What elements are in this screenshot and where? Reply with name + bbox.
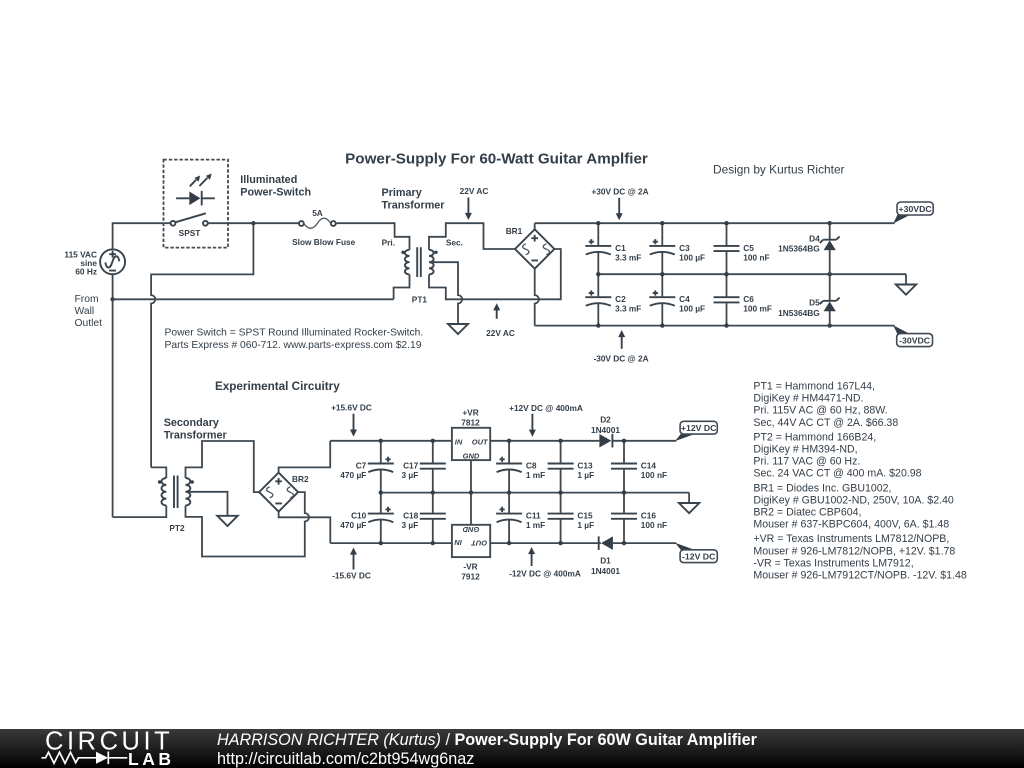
svg-text:60 Hz: 60 Hz: [75, 266, 97, 276]
node junction: [660, 272, 664, 276]
ground PT2 center tap: [217, 516, 237, 526]
svg-text:22V AC: 22V AC: [486, 328, 515, 338]
node junction: [828, 272, 832, 276]
svg-text:+12V DC: +12V DC: [681, 423, 717, 433]
label Secondary Transformer: [164, 417, 228, 442]
arrow -12V up: [528, 547, 535, 566]
node junction: [622, 439, 626, 443]
diode D1 1N4001: [599, 536, 677, 550]
svg-text:Sec.: Sec.: [446, 238, 463, 248]
svg-text:Power-Switch: Power-Switch: [240, 187, 311, 199]
svg-text:D1: D1: [600, 556, 611, 566]
node junction: [379, 490, 383, 494]
wire PT2 primary top: [151, 467, 166, 478]
bridge rectifier BR1: [515, 229, 554, 268]
svg-text:1N5364BG: 1N5364BG: [778, 308, 820, 318]
svg-text:PT1 = Hammond 167L44,: PT1 = Hammond 167L44,: [753, 381, 875, 393]
node junction after switch: [251, 221, 255, 225]
capacitor C17 3 &#181;F: [420, 441, 446, 493]
wire wall outlet horizontal: [113, 298, 394, 300]
svg-text:+VR: +VR: [462, 408, 478, 418]
svg-text:Experimental Circuitry: Experimental Circuitry: [215, 380, 340, 393]
svg-text:-15.6V DC: -15.6V DC: [332, 571, 371, 581]
arrow 22V AC down: [465, 198, 472, 221]
svg-text:Pri.: Pri.: [382, 238, 395, 248]
svg-text:7812: 7812: [461, 418, 480, 428]
svg-text:100 µF: 100 µF: [679, 304, 705, 314]
arrow +15.6V down: [350, 414, 357, 437]
svg-text:D5: D5: [809, 298, 820, 308]
label From Wall Outlet: [75, 294, 103, 329]
capacitor C13 1 &#181;F: [548, 441, 574, 493]
transformer PT2: [158, 476, 194, 509]
wire PT2 center tap to ground: [186, 492, 228, 516]
wire PT2 secondary bottom to BR2 right: [186, 492, 310, 556]
capacitor C3 100 &#181;F: [649, 223, 675, 274]
svg-text:+12V DC @ 400mA: +12V DC @ 400mA: [509, 403, 583, 413]
node junction: [558, 541, 562, 545]
flag +12V DC: [675, 421, 717, 441]
capacitor C14 100 nF: [611, 441, 637, 493]
svg-text:BR1 = Diodes Inc. GBU1002,: BR1 = Diodes Inc. GBU1002,: [753, 482, 891, 494]
wire +VR GND stem: [470, 460, 472, 493]
svg-text:+VR = Texas Instruments LM7812: +VR = Texas Instruments LM7812/NOPB,: [753, 533, 949, 545]
ground bottom circuit right: [679, 493, 699, 514]
wire PT1 secondary bottom to BR1 right: [429, 249, 561, 299]
capacitor C18 3 &#181;F: [420, 493, 446, 543]
svg-text:Primary: Primary: [382, 187, 422, 199]
wire PT1 center tap to ground: [429, 262, 462, 324]
capacitor C10 470 &#181;F: [368, 493, 394, 543]
LED cathode bar: [201, 191, 203, 206]
wire -30V rail: [535, 325, 895, 327]
svg-text:Mouser # 926-LM7912CT/NOPB. -1: Mouser # 926-LM7912CT/NOPB. -12V. $1.48: [753, 570, 966, 582]
svg-text:From: From: [75, 294, 99, 305]
svg-text:Parts Express # 060-712. www.p: Parts Express # 060-712. www.parts-expre…: [165, 340, 422, 351]
label Illuminated Power-Switch: [240, 174, 311, 199]
arrow -30V up: [618, 330, 625, 349]
svg-text:+15.6V DC: +15.6V DC: [331, 402, 372, 412]
wire fuse to PT1 primary: [336, 223, 410, 250]
LED lead wires: [176, 197, 215, 199]
wire mid rail: [598, 273, 906, 275]
svg-text:470 µF: 470 µF: [340, 520, 366, 530]
CircuitLab logo: [38, 729, 248, 768]
svg-text:Secondary: Secondary: [164, 417, 219, 429]
node junction: [660, 221, 664, 225]
svg-text:22V AC: 22V AC: [460, 186, 489, 196]
svg-text:Slow Blow Fuse: Slow Blow Fuse: [292, 237, 356, 247]
arrow +12V down: [529, 414, 536, 437]
node junction: [724, 272, 728, 276]
svg-text:Mouser # 637-KBPC604, 400V, 6A: Mouser # 637-KBPC604, 400V, 6A. $1.48: [753, 519, 949, 531]
note power switch: [165, 328, 424, 351]
node junction: [431, 439, 435, 443]
capacitor C11 1 mF: [496, 493, 522, 543]
svg-text:-12V DC @ 400mA: -12V DC @ 400mA: [509, 568, 581, 578]
arrow 22V AC up: [493, 303, 500, 319]
node junction: [558, 490, 562, 494]
capacitor C16 100 nF: [611, 493, 637, 543]
switch SPST: [171, 213, 208, 225]
wire PT2 secondary top to BR2: [186, 441, 260, 492]
svg-text:GND: GND: [462, 525, 479, 534]
svg-text:-VR: -VR: [463, 561, 477, 571]
LED arrow 1: [190, 176, 200, 187]
wire -VR GND stem: [470, 493, 472, 525]
logo diode: [96, 752, 108, 764]
footer bar: [0, 729, 1024, 768]
zener diode D5 1N5364BG: [820, 274, 840, 325]
capacitor C8 1 mF: [496, 441, 522, 493]
wire PT1 primary bottom to wall wire: [394, 275, 410, 300]
node junction: [828, 323, 832, 327]
svg-text:OUT: OUT: [472, 437, 489, 446]
svg-text:Pri. 117 VAC @ 60 Hz.: Pri. 117 VAC @ 60 Hz.: [753, 456, 860, 468]
wire BR1 plus to +30 rail: [534, 223, 536, 229]
wire source top to switch: [113, 223, 171, 249]
svg-text:DigiKey # HM394-ND,: DigiKey # HM394-ND,: [753, 444, 857, 456]
fuse F1 5A: [299, 218, 336, 228]
svg-text:100 mF: 100 mF: [743, 304, 772, 314]
logo resistor zigzag: [42, 752, 97, 763]
svg-text:1 µF: 1 µF: [577, 470, 594, 480]
svg-text:LAB: LAB: [128, 749, 174, 768]
svg-text:1 mF: 1 mF: [526, 520, 545, 530]
voltage regulator -VR 7912: [452, 525, 490, 557]
wire +15.6V rail to VR IN: [330, 440, 452, 442]
wire -15.6V rail to -VR IN: [330, 542, 452, 544]
svg-text:Power Switch = SPST Round Illu: Power Switch = SPST Round Illuminated Ro…: [165, 328, 424, 339]
node junction: [724, 221, 728, 225]
svg-text:Power-Supply For 60-Watt Guita: Power-Supply For 60-Watt Guitar Amplfier: [345, 150, 648, 167]
node junction: [622, 490, 626, 494]
svg-text:Pri. 115V AC @ 60 Hz, 88W.: Pri. 115V AC @ 60 Hz, 88W.: [753, 405, 887, 417]
ground mid rail right: [896, 274, 916, 295]
ground PT1 center tap: [448, 324, 468, 334]
svg-text:PT2 = Hammond 166B24,: PT2 = Hammond 166B24,: [753, 431, 876, 443]
footer text: [217, 731, 757, 768]
svg-text:3 µF: 3 µF: [402, 520, 419, 530]
svg-text:1 µF: 1 µF: [577, 520, 594, 530]
wire BR2 minus with hop to -15.6 rail: [279, 512, 331, 543]
svg-text:BR1: BR1: [506, 226, 523, 236]
node junction source bottom: [110, 297, 114, 301]
zener diode D4 1N5364BG: [820, 223, 840, 274]
svg-text:BR2: BR2: [292, 474, 309, 484]
svg-text:IN: IN: [454, 538, 462, 547]
node junction: [507, 439, 511, 443]
svg-text:D4: D4: [809, 233, 820, 243]
flag +30VDC: [893, 202, 933, 224]
svg-text:100 nF: 100 nF: [641, 520, 667, 530]
svg-text:Mouser # 926-LM7812/NOPB, +12V: Mouser # 926-LM7812/NOPB, +12V. $1.78: [753, 545, 955, 557]
svg-text:PT1: PT1: [412, 295, 428, 305]
node junction: [558, 439, 562, 443]
node junction: [596, 221, 600, 225]
svg-text:D2: D2: [600, 415, 611, 425]
arrow +30V down: [616, 198, 623, 221]
svg-text:Transformer: Transformer: [164, 429, 228, 441]
capacitor C15 1 &#181;F: [548, 493, 574, 543]
capacitor C2 3.3 mF: [585, 274, 611, 325]
capacitor C7 470 &#181;F: [368, 441, 394, 493]
svg-text:470 µF: 470 µF: [340, 470, 366, 480]
transformer PT1: [401, 247, 437, 277]
svg-text:Design by Kurtus Richter: Design by Kurtus Richter: [713, 163, 845, 177]
svg-text:Transformer: Transformer: [382, 200, 446, 212]
svg-text:+30VDC: +30VDC: [899, 204, 933, 214]
svg-text:-12V DC: -12V DC: [682, 552, 716, 562]
flag -12V DC: [675, 543, 717, 563]
svg-text:Illuminated: Illuminated: [240, 174, 297, 186]
svg-text:1N4001: 1N4001: [591, 425, 620, 435]
svg-text:3 µF: 3 µF: [402, 470, 419, 480]
svg-text:+30V DC @ 2A: +30V DC @ 2A: [591, 186, 648, 196]
node junction: [596, 272, 600, 276]
capacitor C5 100 nF: [714, 223, 740, 274]
wire BR1 minus down with hop: [535, 269, 539, 326]
node junction: [828, 221, 832, 225]
svg-text:1N5364BG: 1N5364BG: [778, 244, 820, 254]
wire -VR OUT to -12 rail: [490, 542, 601, 544]
svg-text:DigiKey # HM4471-ND.: DigiKey # HM4471-ND.: [753, 393, 863, 405]
svg-text:100 nF: 100 nF: [743, 252, 769, 262]
label 115 VAC sine 60 Hz: [64, 250, 97, 277]
svg-text:SPST: SPST: [179, 228, 201, 238]
svg-text:5A: 5A: [312, 208, 323, 218]
svg-text:BR2 = Diatec CBP604,: BR2 = Diatec CBP604,: [753, 507, 861, 519]
arrow -15.6V up: [350, 548, 357, 570]
svg-text:PT2: PT2: [169, 523, 185, 533]
voltage regulator +VR 7812: [452, 428, 490, 461]
svg-text:100 µF: 100 µF: [679, 252, 705, 262]
capacitor C6 100 mF: [714, 274, 740, 325]
LED arrow 2: [199, 174, 211, 187]
svg-text:OUT: OUT: [470, 538, 487, 547]
svg-text:-30V DC @ 2A: -30V DC @ 2A: [593, 353, 648, 363]
svg-text:DigiKey # GBU1002-ND, 250V, 10: DigiKey # GBU1002-ND, 250V, 10A. $2.40: [753, 494, 954, 506]
svg-text:1 mF: 1 mF: [526, 470, 545, 480]
wire +VR OUT to +12 rail: [490, 440, 599, 442]
svg-text:7912: 7912: [461, 571, 480, 581]
wire switch to fuse: [208, 222, 299, 224]
wire vertical to PT2 primary bottom: [112, 299, 114, 517]
svg-text:GND: GND: [463, 452, 480, 461]
node junction: [431, 541, 435, 545]
svg-text:Wall: Wall: [75, 306, 95, 317]
node junction: [379, 541, 383, 545]
node junction: [622, 541, 626, 545]
svg-text:Sec, 44V AC CT @ 2A. $66.38: Sec, 44V AC CT @ 2A. $66.38: [753, 417, 898, 429]
svg-text:1N4001: 1N4001: [591, 566, 620, 576]
parts list text block: [753, 381, 966, 582]
wire switch return vertical with hop: [151, 223, 253, 467]
node junction VR gnd: [469, 490, 473, 494]
diode D2 1N4001: [599, 434, 676, 448]
node junction: [507, 490, 511, 494]
voltage source V1 115VAC: [100, 249, 125, 274]
svg-text:Outlet: Outlet: [75, 318, 103, 329]
node junction: [724, 323, 728, 327]
node junction: [660, 323, 664, 327]
LED triangle: [189, 192, 200, 206]
capacitor C1 3.3 mF: [585, 223, 611, 274]
node junction: [596, 323, 600, 327]
node junction: [379, 439, 383, 443]
wire BR2 plus to +15.6 rail: [279, 441, 331, 473]
wire mid rail bottom: [381, 492, 689, 494]
node junction: [507, 541, 511, 545]
bridge rectifier BR2: [259, 473, 298, 512]
svg-text:Sec. 24 VAC CT @ 400 mA. $20.9: Sec. 24 VAC CT @ 400 mA. $20.98: [753, 468, 921, 480]
svg-text:3.3 mF: 3.3 mF: [615, 252, 641, 262]
svg-text:3.3 mF: 3.3 mF: [615, 304, 641, 314]
dashed enclosure illuminated power-switch: [164, 160, 229, 248]
node junction: [431, 490, 435, 494]
wire PT2 primary bottom: [113, 506, 167, 518]
flag -30VDC: [893, 325, 932, 346]
svg-text:IN: IN: [455, 437, 463, 446]
wire +30V rail: [535, 222, 895, 224]
capacitor C4 100 &#181;F: [649, 274, 675, 325]
svg-text:-VR = Texas Instruments LM7912: -VR = Texas Instruments LM7912,: [753, 557, 913, 569]
svg-text:100 nF: 100 nF: [641, 470, 667, 480]
wire source bottom: [112, 274, 114, 299]
label Primary Transformer: [382, 187, 446, 212]
svg-text:-30VDC: -30VDC: [899, 336, 931, 346]
wire PT1 secondary top to BR1: [429, 223, 515, 250]
